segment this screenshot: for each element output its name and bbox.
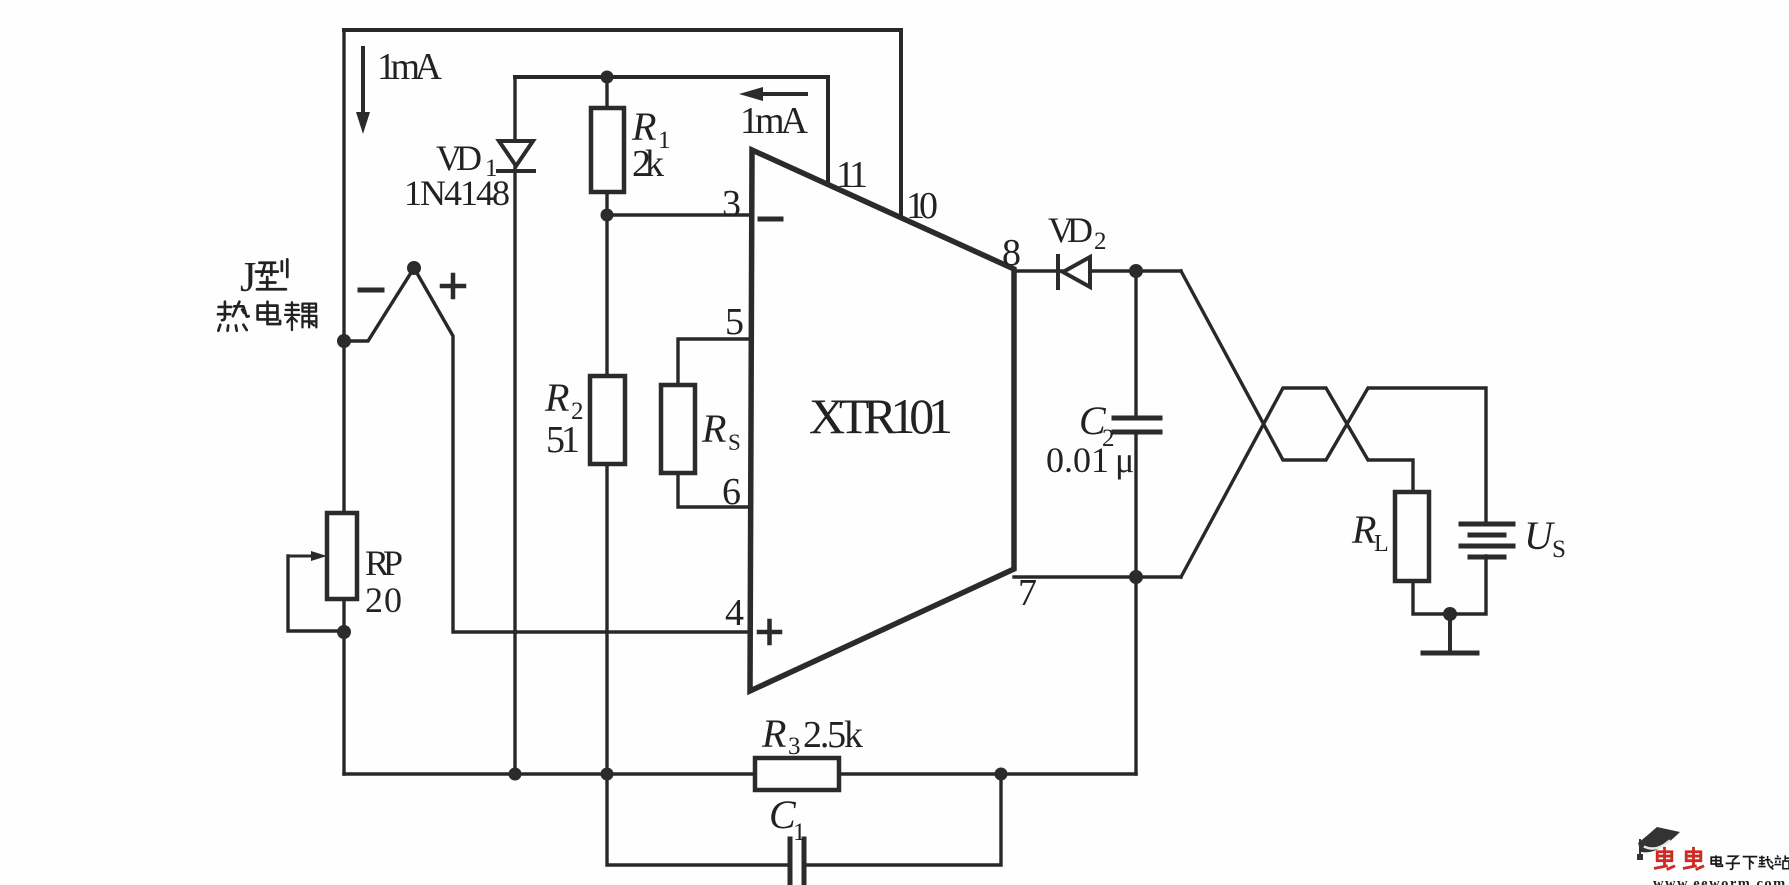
svg-text:2: 2 <box>1094 228 1107 255</box>
svg-text:2.5k: 2.5k <box>803 714 863 756</box>
svg-text:2k: 2k <box>632 143 664 185</box>
svg-text:R: R <box>701 406 726 451</box>
current arrow 1mA right <box>754 92 806 96</box>
watermark site name 电子下载站 <box>1711 855 1789 869</box>
resistor RL <box>1395 492 1429 581</box>
svg-text:1N4148: 1N4148 <box>404 173 510 213</box>
svg-text:20: 20 <box>365 580 402 620</box>
svg-text:RP: RP <box>365 543 403 583</box>
node junction dot VD1 / bottom rail <box>509 768 522 781</box>
svg-text:J: J <box>240 255 256 301</box>
wire RP wiper feedback <box>288 556 344 631</box>
capacitor C2 plates <box>1114 418 1160 432</box>
svg-text:1mA: 1mA <box>377 46 443 88</box>
node junction dot thermocouple hot <box>407 261 421 275</box>
svg-text:0.01μ: 0.01μ <box>1046 440 1134 480</box>
CJK char 热 (of 热电耦) <box>218 302 249 331</box>
svg-text:S: S <box>1552 536 1566 563</box>
wire battery negative lead <box>1450 556 1486 614</box>
wire pin 7 lead <box>1014 575 1181 578</box>
wire drop from node 7 to bottom rail <box>1134 577 1137 774</box>
CJK char 电 (of 热电耦) <box>258 302 280 324</box>
svg-text:L: L <box>1374 531 1389 557</box>
diode VD1 <box>498 141 534 171</box>
wire pin 11 drop <box>826 77 830 183</box>
wire VD1 branch vertical <box>513 77 516 774</box>
wire C1 left branch <box>607 774 789 865</box>
wire pin 6 lead <box>678 473 751 507</box>
wire thermocouple plus leg to pin 4 <box>414 268 751 632</box>
current arrow 1mA left <box>361 48 365 118</box>
svg-text:3: 3 <box>788 733 801 760</box>
resistor R2 <box>590 376 625 464</box>
wire inner top rail <box>515 75 828 79</box>
svg-text:8: 8 <box>1002 232 1021 274</box>
svg-text:R: R <box>1351 507 1376 552</box>
wire twisted pair line B lower <box>1181 388 1413 577</box>
svg-text:4: 4 <box>725 592 744 634</box>
thermocouple plus sign <box>442 275 464 297</box>
wire twisted pair line A upper <box>1181 271 1486 522</box>
op-amp U1 XTR101 body <box>750 150 1014 691</box>
node junction dot RP bottom <box>337 625 351 639</box>
node junction dot thermocouple minus / left rail <box>337 334 351 348</box>
CJK char 耦 (of 热电耦) <box>285 302 316 330</box>
wire C2 bottom lead <box>1134 434 1137 577</box>
watermark eeworm logo graduation cap <box>1637 827 1680 860</box>
svg-text:XTR101: XTR101 <box>809 388 953 444</box>
wire RL bottom lead <box>1413 581 1450 614</box>
svg-text:www.eeworm.com: www.eeworm.com <box>1653 876 1787 885</box>
node junction dot ground <box>1443 607 1457 621</box>
svg-text:51: 51 <box>546 419 580 461</box>
resistor RS <box>661 385 695 473</box>
wire R1 top lead <box>605 77 608 108</box>
svg-text:1mA: 1mA <box>740 100 809 142</box>
wire C2 top lead <box>1134 271 1137 416</box>
svg-text:10: 10 <box>906 185 938 227</box>
svg-text:VD: VD <box>436 138 482 178</box>
node junction dot inner rail / R1 <box>601 71 614 84</box>
svg-text:6: 6 <box>722 471 741 513</box>
wire R1 bottom lead to node 3 <box>605 192 608 215</box>
potentiometer RP body <box>327 513 357 599</box>
svg-text:R: R <box>544 375 569 420</box>
node junction dot pin7 / C2 bottom <box>1129 570 1143 584</box>
wire thermocouple minus leg <box>344 268 414 341</box>
diode VD2 <box>1058 256 1090 288</box>
svg-text:5: 5 <box>725 301 744 343</box>
wire pin 8 lead through VD2 <box>1014 269 1181 272</box>
wire pin 3 lead <box>607 213 751 216</box>
resistor R1 <box>591 108 624 192</box>
node junction dot R1 / pin 3 <box>601 209 614 222</box>
thermocouple minus sign <box>360 288 382 293</box>
wire top supply rail <box>344 28 901 32</box>
svg-text:1: 1 <box>849 154 868 196</box>
wire pin 5 lead <box>678 339 751 385</box>
capacitor C1 plates <box>790 839 804 885</box>
ground symbol <box>1423 614 1477 653</box>
wire R2 top lead <box>605 215 608 376</box>
node junction dot VD2 / C2 top <box>1129 264 1143 278</box>
svg-text:VD: VD <box>1048 210 1093 250</box>
node junction dot C1 / bottom rail <box>995 768 1008 781</box>
resistor R3 <box>755 758 839 790</box>
svg-text:3: 3 <box>722 183 741 225</box>
CJK char 型 (of J型) <box>256 259 287 289</box>
watermark chongchong red characters 虫虫 <box>1654 847 1704 870</box>
svg-text:S: S <box>728 430 741 455</box>
wire C1 right branch <box>805 774 1001 865</box>
wire bottom rail <box>344 772 1136 775</box>
inverting input minus sign <box>760 217 781 222</box>
wire left rail <box>342 30 345 774</box>
battery US plates <box>1461 524 1513 557</box>
wire right drop to pin 10 <box>899 30 903 220</box>
svg-text:1: 1 <box>793 819 806 846</box>
node junction dot R2 / bottom rail <box>601 768 614 781</box>
svg-text:7: 7 <box>1018 572 1037 614</box>
wire R2 bottom lead <box>605 464 608 774</box>
noninverting input plus sign <box>759 621 780 643</box>
potentiometer RP wiper arrow <box>288 555 313 558</box>
svg-text:R: R <box>761 711 786 756</box>
